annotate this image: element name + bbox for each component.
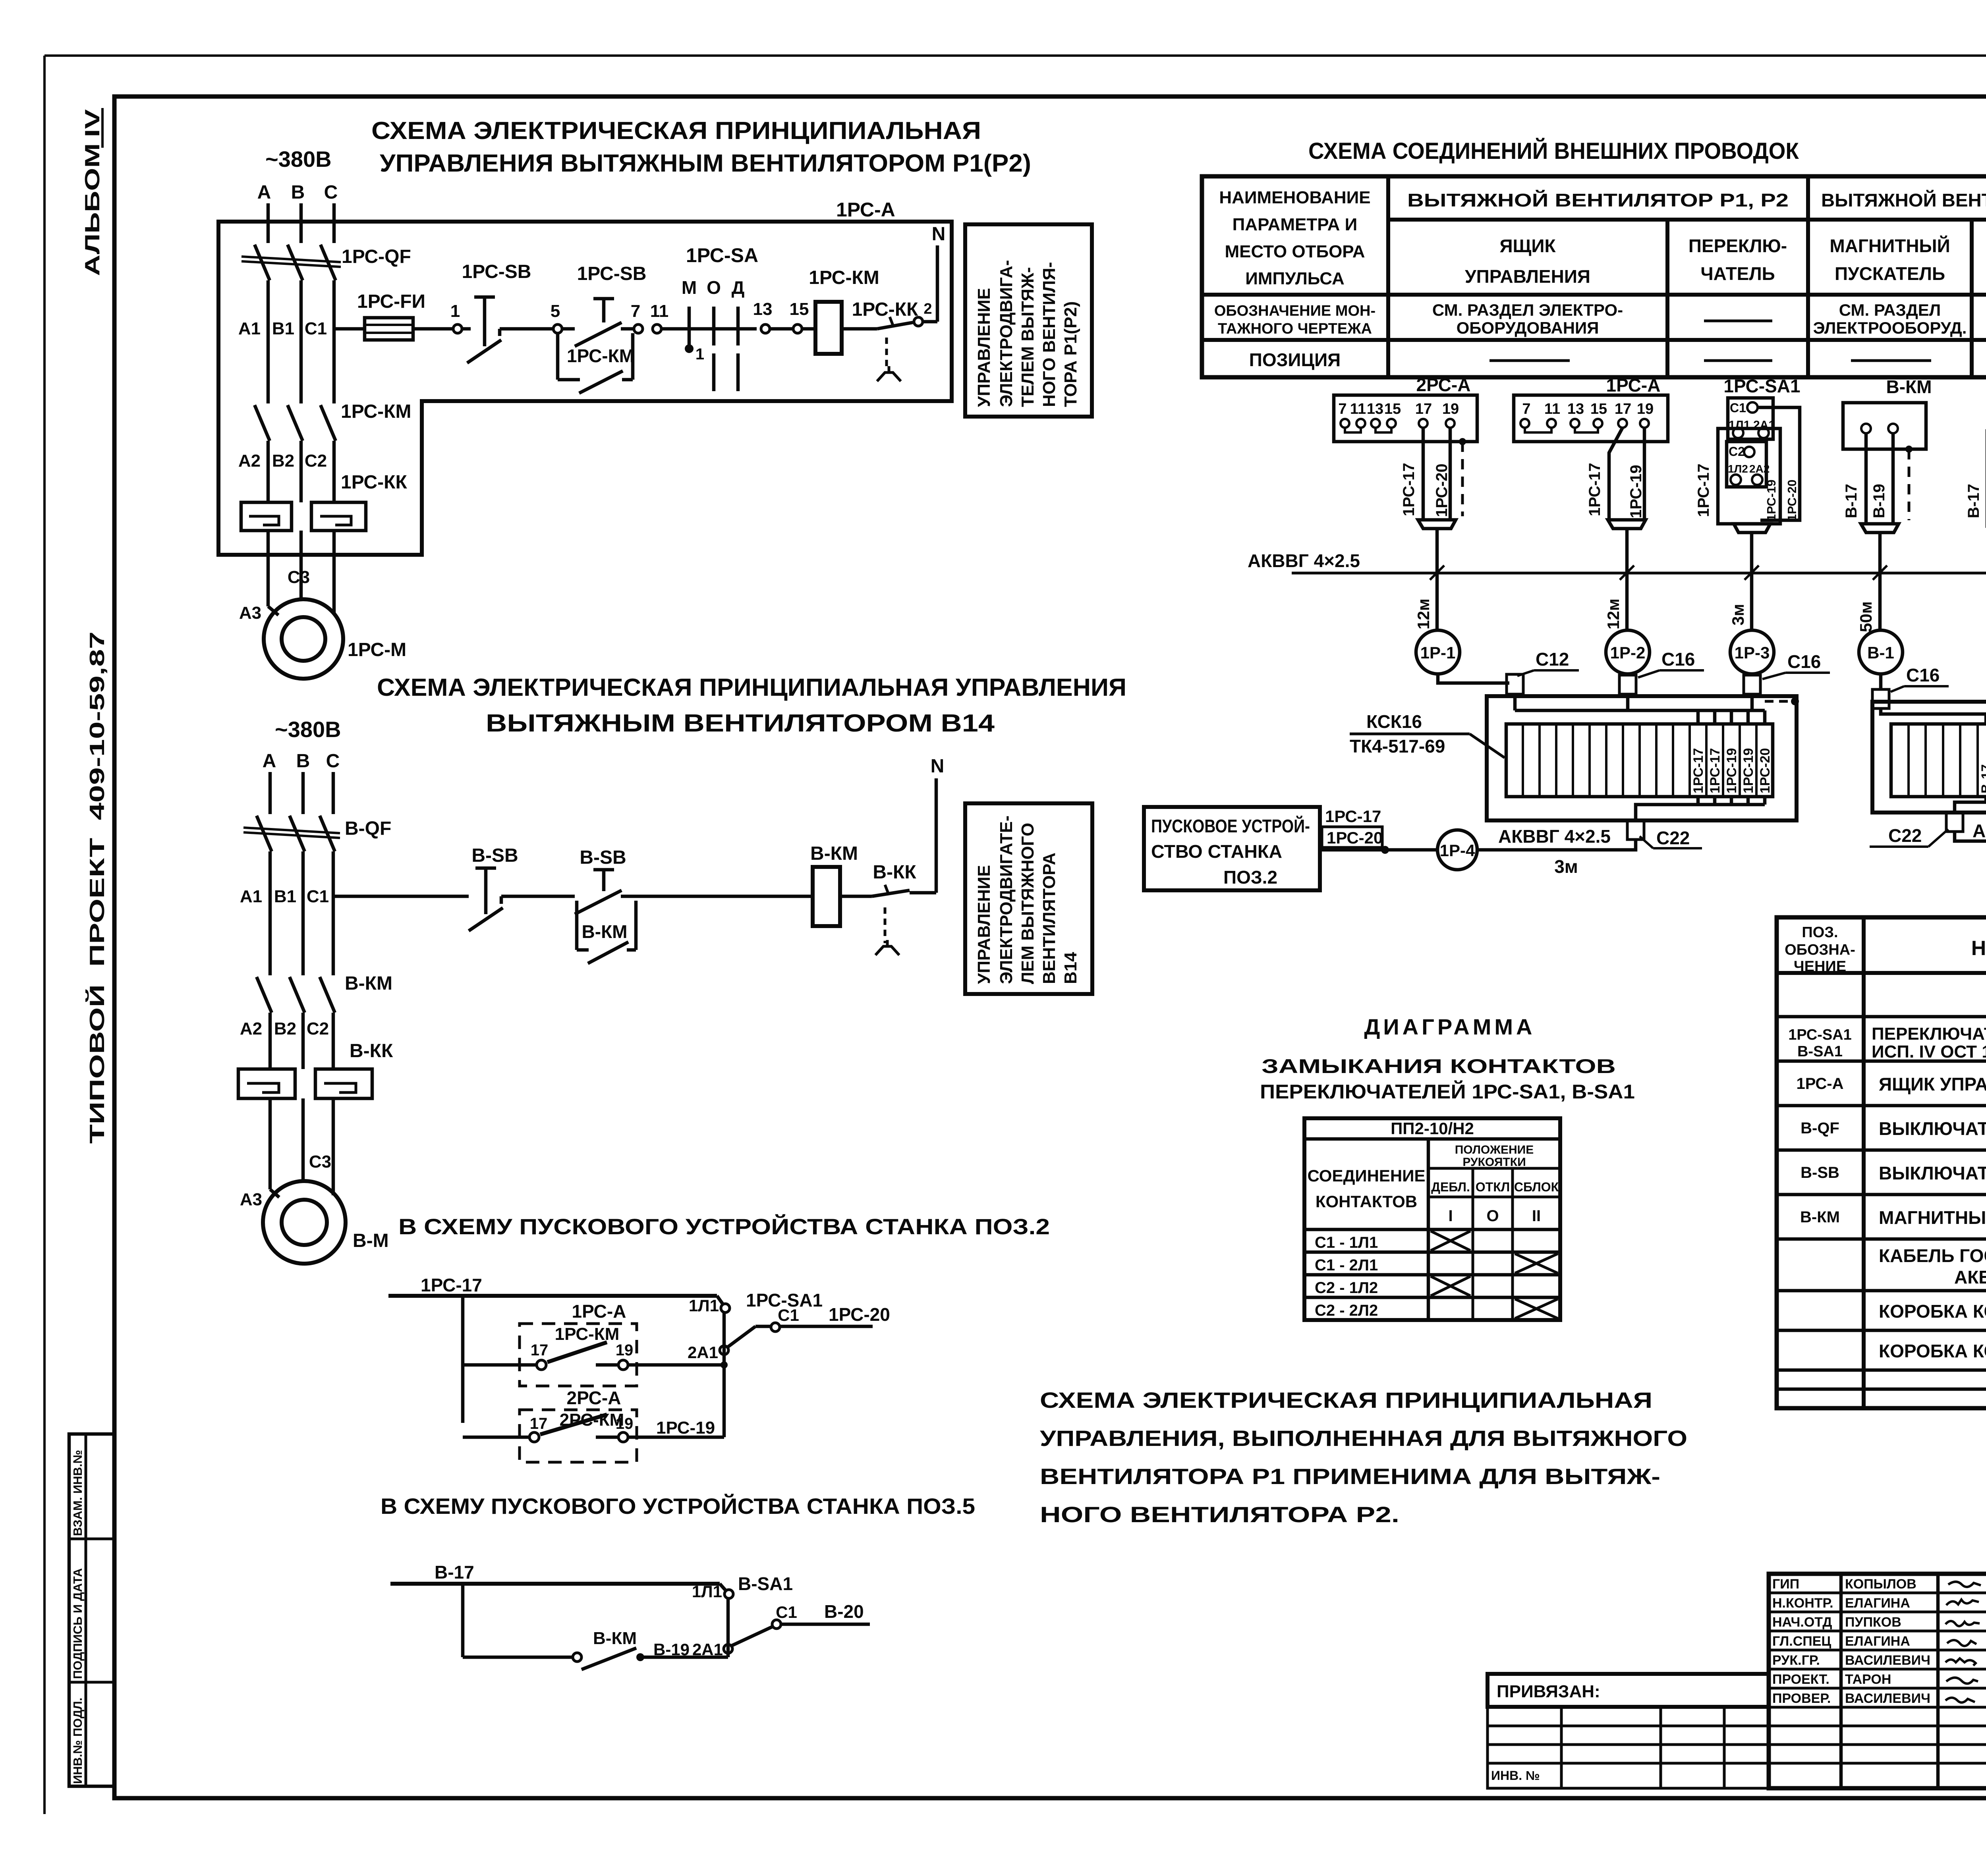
terminal strip KCK8 — [1891, 724, 1986, 797]
coil 1PC-KM — [815, 302, 842, 354]
wire to B-20 — [781, 1623, 870, 1626]
svg-text:ПОЗ.2: ПОЗ.2 — [1223, 867, 1277, 888]
svg-text:С1: С1 — [1730, 401, 1746, 415]
svg-text:ИНВ.№ ПОДЛ.: ИНВ.№ ПОДЛ. — [71, 1698, 85, 1784]
node 1L1 — [721, 1304, 730, 1312]
svg-text:II: II — [1532, 1207, 1541, 1225]
phase wires to motor — [269, 1098, 272, 1189]
terminal strip KCK16 — [1506, 724, 1773, 797]
svg-text:С2: С2 — [305, 451, 327, 471]
internal link wire KCK16 — [1515, 709, 1765, 712]
note box circuit 1 — [965, 224, 1092, 417]
svg-text:В-КМ: В-КМ — [1886, 376, 1932, 397]
svg-text:ГЛ.СПЕЦ: ГЛ.СПЕЦ — [1772, 1634, 1831, 1649]
circle B-1 — [1859, 630, 1903, 674]
svg-text:50м: 50м — [1857, 601, 1875, 632]
svg-text:А: А — [263, 751, 276, 772]
svg-text:1Р-2: 1Р-2 — [1610, 643, 1646, 662]
svg-text:В-КМ: В-КМ — [1800, 1208, 1840, 1226]
svg-text:15: 15 — [790, 299, 809, 319]
diagram table frame — [1304, 1118, 1560, 1320]
svg-text:19: 19 — [616, 1341, 634, 1359]
contact 2PC-KM in pos2 — [463, 1436, 529, 1439]
svg-text:А2: А2 — [240, 1019, 262, 1038]
wire to coil — [802, 327, 815, 331]
jumper links 2PC-A terminals — [1345, 428, 1361, 432]
svg-text:ТЕЛЕМ ВЫТЯЖ-: ТЕЛЕМ ВЫТЯЖ- — [1018, 267, 1037, 407]
svg-text:В СХЕМУ ПУСКОВОГО УСТРОЙСТВА: В СХЕМУ ПУСКОВОГО УСТРОЙСТВА СТАНКА ПОЗ.… — [381, 1494, 975, 1519]
C16 connector b — [1744, 675, 1760, 694]
wire node2 to N — [923, 320, 937, 324]
svg-text:А3: А3 — [240, 1190, 262, 1209]
margin stamp boxes bottom-left — [69, 1434, 114, 1786]
svg-text:В: В — [296, 751, 310, 772]
svg-text:1РС-А: 1РС-А — [572, 1301, 626, 1322]
svg-text:В-1: В-1 — [1867, 643, 1894, 662]
svg-text:М: М — [682, 277, 697, 298]
privyazan box — [1488, 1674, 1769, 1707]
svg-text:ЧАТЕЛЬ: ЧАТЕЛЬ — [1700, 263, 1775, 284]
svg-text:В-19: В-19 — [1870, 484, 1888, 518]
breaker B-QF blades — [257, 816, 272, 851]
svg-text:1РС-17: 1РС-17 — [421, 1275, 482, 1295]
control row wire from C1 — [334, 327, 365, 331]
svg-text:ВЗАМ. ИНВ.№: ВЗАМ. ИНВ.№ — [71, 1450, 85, 1536]
wire 1PC-17 — [388, 1294, 717, 1298]
svg-text:КОРОБКА КСК-8 ТУ36. 17: КОРОБКА КСК-8 ТУ36. 1753-75 — [1879, 1301, 1986, 1322]
jumper links 1PC-A terminals — [1525, 428, 1551, 432]
svg-text:~380В: ~380В — [265, 147, 332, 172]
svg-text:ПЕРЕКЛЮЧАТЕЛЕЙ 1РС-SА1, В-SА1: ПЕРЕКЛЮЧАТЕЛЕЙ 1РС-SА1, В-SА1 — [1260, 1080, 1635, 1103]
svg-text:А1: А1 — [238, 319, 261, 338]
svg-text:С: С — [324, 182, 338, 203]
svg-text:17: 17 — [530, 1415, 548, 1432]
svg-text:ПУСКОВОЕ УСТРОЙ-: ПУСКОВОЕ УСТРОЙ- — [1151, 816, 1310, 836]
svg-text:ПОЛОЖЕНИЕ: ПОЛОЖЕНИЕ — [1455, 1143, 1534, 1156]
svg-text:2РС-КМ: 2РС-КМ — [560, 1410, 624, 1430]
svg-text:СБЛОК: СБЛОК — [1514, 1180, 1559, 1194]
svg-text:В-М: В-М — [353, 1230, 389, 1251]
N wire — [936, 245, 939, 322]
handwritten signatures — [1948, 1582, 1981, 1587]
svg-text:1РС-19: 1РС-19 — [1724, 748, 1739, 793]
aux contact B-KM holding branch — [575, 901, 579, 950]
svg-text:ДЕБЛ.: ДЕБЛ. — [1431, 1180, 1470, 1194]
svg-text:1РС-20: 1РС-20 — [829, 1304, 890, 1325]
QF crossbar — [243, 828, 340, 833]
svg-text:12м: 12м — [1604, 598, 1623, 629]
svg-text:В2: В2 — [274, 1019, 296, 1038]
svg-text:С2: С2 — [1729, 444, 1745, 459]
svg-text:13: 13 — [1567, 401, 1584, 417]
svg-text:НАИМЕНОВАНИЕ: НАИМЕНОВАНИЕ — [1971, 937, 1986, 960]
svg-text:А3: А3 — [239, 603, 261, 623]
svg-text:ЛЕМ ВЫТЯЖНОГО: ЛЕМ ВЫТЯЖНОГО — [1018, 823, 1037, 984]
svg-text:1Р-1: 1Р-1 — [1420, 643, 1456, 662]
svg-text:5: 5 — [551, 301, 560, 321]
svg-text:СХЕМА ЭЛЕКТРИЧЕСКАЯ ПРИНЦИПИ: СХЕМА ЭЛЕКТРИЧЕСКАЯ ПРИНЦИПИАЛЬНАЯ — [371, 117, 981, 145]
svg-text:N: N — [931, 756, 945, 777]
svg-text:ОТКЛ: ОТКЛ — [1476, 1180, 1510, 1194]
svg-text:КОПЫЛОВ: КОПЫЛОВ — [1845, 1577, 1916, 1592]
svg-text:НАЧ.ОТД: НАЧ.ОТД — [1772, 1615, 1832, 1630]
svg-text:СТВО СТАНКА: СТВО СТАНКА — [1151, 841, 1282, 862]
node 2A1 pos5 — [724, 1644, 732, 1653]
C22 connector left — [1627, 820, 1644, 840]
svg-text:1РС-20: 1РС-20 — [1758, 748, 1773, 793]
svg-text:КАБЕЛЬ ГОСТ 1508-78*Е: КАБЕЛЬ ГОСТ 1508-78*Е — [1879, 1245, 1986, 1266]
phase wires to motor — [267, 531, 270, 606]
svg-text:В-17: В-17 — [1843, 484, 1860, 518]
svg-text:13: 13 — [1367, 401, 1383, 417]
svg-text:ОБОРУДОВАНИЯ: ОБОРУДОВАНИЯ — [1457, 318, 1599, 337]
wire to 1PC-20 — [780, 1325, 873, 1328]
svg-text:СМ. РАЗДЕЛ ЭЛЕКТРО-: СМ. РАЗДЕЛ ЭЛЕКТРО- — [1432, 301, 1623, 319]
svg-text:СМ. РАЗДЕЛ: СМ. РАЗДЕЛ — [1839, 301, 1941, 319]
svg-text:ЕЛАГИНА: ЕЛАГИНА — [1845, 1634, 1910, 1649]
svg-text:I: I — [1448, 1207, 1453, 1225]
svg-text:ТК4-517-69: ТК4-517-69 — [1350, 736, 1445, 757]
svg-text:12м: 12м — [1414, 598, 1433, 629]
svg-text:ОБОЗНА-: ОБОЗНА- — [1785, 942, 1855, 958]
svg-text:С1: С1 — [305, 319, 327, 338]
svg-text:ОБОЗНАЧЕНИЕ МОН-: ОБОЗНАЧЕНИЕ МОН- — [1214, 303, 1376, 319]
svg-text:11: 11 — [1350, 401, 1366, 417]
node 7 — [634, 324, 643, 333]
wire fuse to node 1 — [413, 327, 453, 331]
svg-text:СХЕМА ЭЛЕКТРИЧЕСКАЯ ПРИНЦИПИ: СХЕМА ЭЛЕКТРИЧЕСКАЯ ПРИНЦИПИАЛЬНАЯ — [1040, 1388, 1652, 1413]
svg-text:В1: В1 — [274, 887, 296, 906]
svg-text:17: 17 — [531, 1341, 549, 1359]
svg-text:7: 7 — [631, 301, 640, 321]
svg-text:ПРОВЕР.: ПРОВЕР. — [1772, 1691, 1831, 1706]
svg-text:ПРИВЯЗАН:: ПРИВЯЗАН: — [1497, 1682, 1600, 1701]
svg-text:В-КМ: В-КМ — [582, 921, 628, 942]
svg-text:3м: 3м — [1729, 604, 1747, 625]
node 2A1 — [720, 1346, 728, 1355]
aux contact 1PC-KM holding branch — [556, 333, 560, 380]
svg-text:ТАРОН: ТАРОН — [1845, 1672, 1891, 1687]
svg-text:1РС-КМ: 1РС-КМ — [809, 267, 879, 288]
blade 2A1 to C1 pos5 — [732, 1627, 773, 1646]
svg-text:13: 13 — [753, 299, 773, 319]
svg-text:НАИМЕНОВАНИЕ: НАИМЕНОВАНИЕ — [1219, 188, 1370, 207]
main outline — [1769, 1574, 1986, 1788]
wire 1P-1 to C12 — [1438, 674, 1509, 683]
svg-text:ТАЖНОГО ЧЕРТЕЖА: ТАЖНОГО ЧЕРТЕЖА — [1218, 320, 1372, 337]
svg-text:В-17: В-17 — [435, 1562, 474, 1583]
KK manual reset dashed — [885, 338, 888, 369]
vertical node link — [723, 1312, 726, 1437]
svg-text:7: 7 — [1338, 401, 1347, 417]
svg-text:С1: С1 — [778, 1306, 799, 1324]
svg-text:В-19: В-19 — [653, 1640, 690, 1659]
reserve stub dot KCK16 — [1765, 700, 1789, 703]
svg-text:1РС-SА1: 1РС-SА1 — [1788, 1027, 1852, 1043]
phase wires lower — [267, 441, 270, 502]
circle 1P-2 — [1606, 630, 1650, 674]
circle 1P-1 — [1416, 630, 1460, 674]
svg-text:РУКОЯТКИ: РУКОЯТКИ — [1462, 1156, 1526, 1169]
vertical node link pos5 — [726, 1598, 730, 1657]
svg-text:1РС-КМ: 1РС-КМ — [555, 1324, 620, 1344]
wire 13-15 — [770, 327, 793, 331]
svg-text:1РС-19: 1РС-19 — [1764, 480, 1778, 521]
svg-text:АКВВГ 4×2.5: АКВВГ 4×2.5 — [1498, 826, 1611, 847]
wire coil to KK contact — [842, 327, 877, 331]
wire B-17 — [390, 1582, 720, 1586]
svg-text:УПРАВЛЕНИЯ, ВЫПОЛНЕННАЯ ДЛЯ: УПРАВЛЕНИЯ, ВЫПОЛНЕННАЯ ДЛЯ ВЫТЯЖНОГО — [1040, 1426, 1687, 1451]
svg-text:В-SА1: В-SА1 — [738, 1573, 793, 1594]
svg-text:ИСП. IV ОСТ 16.0.526-001-77: ИСП. IV ОСТ 16.0.526-001-77 — [1872, 1042, 1986, 1062]
svg-text:В-QF: В-QF — [1801, 1119, 1839, 1137]
svg-text:1РС-SВ: 1РС-SВ — [577, 263, 647, 284]
svg-text:КОНТАКТОВ: КОНТАКТОВ — [1316, 1192, 1417, 1211]
svg-text:2А1: 2А1 — [692, 1640, 723, 1659]
svg-text:1РС-SВ: 1РС-SВ — [462, 261, 531, 282]
fuse 1PC-FI — [365, 318, 413, 340]
breaker 1PC-QF blades — [255, 245, 270, 280]
svg-text:С16: С16 — [1661, 649, 1695, 670]
svg-text:1РС-КМ: 1РС-КМ — [567, 345, 634, 366]
cable clamp 1PC-SA1 — [1734, 524, 1770, 533]
svg-text:ЭЛЕКТРОДВИГА-: ЭЛЕКТРОДВИГА- — [997, 260, 1016, 407]
internal link wires KCK8 — [1881, 708, 1986, 724]
svg-text:ПУПКОВ: ПУПКОВ — [1845, 1615, 1901, 1630]
svg-text:1: 1 — [450, 301, 460, 321]
svg-text:УПРАВЛЕНИЕ: УПРАВЛЕНИЕ — [974, 288, 994, 407]
KCK8 bottom collector — [1984, 797, 1986, 802]
svg-text:МАГНИТНЫЙ ПУСКАТЕЛЬ: МАГНИТНЫЙ ПУСКАТЕЛЬ — [1879, 1207, 1986, 1228]
svg-text:ВЫКЛЮЧАТЕЛЬ: ВЫКЛЮЧАТЕЛЬ — [1879, 1118, 1986, 1139]
svg-text:1РС-19: 1РС-19 — [1741, 748, 1756, 793]
svg-text:В-QF: В-QF — [345, 818, 391, 839]
svg-text:ВАСИЛЕВИЧ: ВАСИЛЕВИЧ — [1845, 1653, 1930, 1668]
contactor B-KM main blades — [257, 977, 272, 1013]
svg-text:15: 15 — [1384, 401, 1401, 417]
svg-text:В-SВ: В-SВ — [580, 847, 626, 868]
wire C22 to 1P-4 — [1476, 840, 1636, 850]
svg-text:~380В: ~380В — [275, 717, 341, 742]
svg-text:В-17: В-17 — [1965, 484, 1982, 518]
svg-text:2РС-А: 2РС-А — [567, 1388, 621, 1408]
wires from 1PC-A — [1609, 428, 1623, 520]
svg-text:С22: С22 — [1656, 828, 1690, 848]
svg-text:В-КК: В-КК — [873, 862, 916, 883]
node 5 — [553, 324, 562, 333]
dashed box 1PC-A — [520, 1324, 637, 1386]
table frame — [1202, 176, 1986, 377]
dashed box 2PC-A — [520, 1410, 637, 1462]
svg-text:ВЫТЯЖНОЙ ВЕНТИЛЯТОР В14: ВЫТЯЖНОЙ ВЕНТИЛЯТОР В14 — [1821, 190, 1986, 210]
svg-text:АКВВГ 4×2.5: АКВВГ 4×2.5 — [1954, 1267, 1986, 1287]
svg-text:1РС-QF: 1РС-QF — [342, 246, 411, 267]
svg-text:В СХЕМУ ПУСКОВОГО УСТРОЙСТВ: В СХЕМУ ПУСКОВОГО УСТРОЙСТВА СТАНКА ПОЗ.… — [398, 1214, 1050, 1239]
KCK16 box — [1487, 696, 1797, 820]
svg-text:ИНВ. №: ИНВ. № — [1491, 1768, 1540, 1783]
node C1 — [771, 1323, 780, 1332]
KCK16 strip dividers continued — [1739, 724, 1741, 797]
svg-text:3м: 3м — [1554, 856, 1578, 877]
svg-text:1Р-4: 1Р-4 — [1440, 841, 1475, 860]
svg-text:В-КМ: В-КМ — [810, 843, 858, 864]
phase wires top — [269, 772, 272, 814]
svg-text:ПОЗ.: ПОЗ. — [1802, 924, 1838, 941]
svg-text:ЧЕНИЕ: ЧЕНИЕ — [1794, 958, 1846, 975]
svg-text:ЯЩИК УПРАВЛЕНИЯ: ЯЩИК УПРАВЛЕНИЯ — [1879, 1074, 1986, 1094]
contact B-KM in pos5 — [463, 1656, 573, 1659]
coil B-KM — [813, 867, 840, 926]
svg-text:1РС-19: 1РС-19 — [656, 1418, 715, 1438]
svg-text:ВЫТЯЖНЫМ ВЕНТИЛЯТОРОМ В14: ВЫТЯЖНЫМ ВЕНТИЛЯТОРОМ В14 — [486, 710, 995, 737]
wire 1P-4 to pos2 box — [1320, 848, 1437, 852]
node 13 — [761, 324, 770, 333]
svg-text:1РС-SА: 1РС-SА — [686, 244, 758, 266]
svg-text:1РС-А: 1РС-А — [1796, 1075, 1843, 1092]
svg-text:ПОДПИСЬ И ДАТА: ПОДПИСЬ И ДАТА — [71, 1568, 85, 1679]
svg-text:С22: С22 — [1888, 825, 1922, 846]
phase wires lower — [269, 1013, 272, 1069]
svg-text:ПАРАМЕТРА И: ПАРАМЕТРА И — [1233, 215, 1358, 234]
outer border top — [44, 54, 1986, 57]
svg-text:N: N — [932, 224, 946, 245]
svg-text:ЕЛАГИНА: ЕЛАГИНА — [1845, 1596, 1910, 1611]
circle 1P-4 — [1437, 830, 1477, 870]
svg-text:В-КМ: В-КМ — [345, 973, 392, 994]
branch junction vertical — [461, 1296, 465, 1423]
svg-text:1РС-19: 1РС-19 — [1627, 465, 1645, 518]
note box circuit 2 — [965, 803, 1092, 994]
wire to switch SA — [661, 327, 757, 331]
contactor 1PC-KM main blades — [255, 405, 270, 441]
svg-text:В-17: В-17 — [1979, 764, 1986, 793]
C16 connector c — [1872, 689, 1889, 708]
svg-text:УПРАВЛЕНИЯ ВЫТЯЖНЫМ ВЕНТИЛЯТ: УПРАВЛЕНИЯ ВЫТЯЖНЫМ ВЕНТИЛЯТОРОМ Р1(Р2) — [380, 150, 1031, 177]
svg-text:МЕСТО ОТБОРА: МЕСТО ОТБОРА — [1225, 242, 1365, 261]
svg-text:МАГНИТНЫЙ: МАГНИТНЫЙ — [1830, 235, 1950, 256]
svg-text:В14: В14 — [1061, 952, 1080, 984]
svg-text:ПЕРЕКЛЮЧАТЕЛЬ ПП2-10/Н2 У356: ПЕРЕКЛЮЧАТЕЛЬ ПП2-10/Н2 У356 — [1872, 1024, 1986, 1044]
svg-text:С12: С12 — [1536, 649, 1569, 670]
node 2 — [914, 317, 923, 326]
circle 1P-3 — [1730, 630, 1774, 674]
svg-text:АКВВГ 4×2.5: АКВВГ 4×2.5 — [1248, 550, 1360, 571]
svg-text:В-SА1: В-SА1 — [1797, 1043, 1843, 1060]
svg-text:1РС-17: 1РС-17 — [1708, 748, 1723, 793]
wire B-1 to C16 — [1879, 674, 1883, 689]
svg-text:ВЫКЛЮЧАТЕЛЬ: ВЫКЛЮЧАТЕЛЬ — [1879, 1163, 1986, 1183]
thermal relay 1PC-KK element A — [241, 502, 292, 531]
svg-text:ВЕНТИЛЯТОРА Р1 ПРИМЕНИМА ДЛЯ: ВЕНТИЛЯТОРА Р1 ПРИМЕНИМА ДЛЯ ВЫТЯЖ- — [1040, 1464, 1660, 1489]
svg-text:В-КК: В-КК — [350, 1040, 393, 1062]
contact 1PC-KM in pos2 — [463, 1363, 537, 1367]
svg-text:1РС-20: 1РС-20 — [1433, 463, 1451, 517]
svg-text:ЯЩИК: ЯЩИК — [1499, 235, 1556, 256]
control box 1PC-A outline — [218, 222, 952, 555]
node 1L1 pos5 — [724, 1590, 733, 1598]
svg-text:1РС-SА1: 1РС-SА1 — [1723, 376, 1800, 396]
thermal relay B-KK element C — [315, 1069, 372, 1098]
svg-text:15: 15 — [1590, 401, 1607, 417]
svg-text:С2: С2 — [307, 1019, 329, 1038]
diagram table row line I O II — [1428, 1196, 1560, 1199]
svg-text:ИМПУЛЬСА: ИМПУЛЬСА — [1245, 269, 1344, 288]
svg-text:1РС-17: 1РС-17 — [1586, 463, 1603, 516]
svg-text:С2 - 2Л2: С2 - 2Л2 — [1315, 1302, 1378, 1319]
svg-text:1РС-А: 1РС-А — [1606, 375, 1661, 396]
svg-text:1Л2: 1Л2 — [1728, 463, 1748, 475]
svg-text:ПЕРЕКЛЮ-: ПЕРЕКЛЮ- — [1688, 235, 1787, 256]
KCK8 box — [1872, 702, 1986, 813]
svg-text:С1 - 1Л1: С1 - 1Л1 — [1315, 1234, 1378, 1251]
svg-text:1РС-20: 1РС-20 — [1785, 480, 1799, 521]
branch junction vertical pos5 — [461, 1584, 465, 1657]
svg-text:ПП2-10/Н2: ПП2-10/Н2 — [1391, 1119, 1474, 1138]
svg-text:ПРОЕКТ.: ПРОЕКТ. — [1772, 1672, 1830, 1687]
node C1 pos5 — [772, 1620, 781, 1629]
svg-text:РУК.ГР.: РУК.ГР. — [1772, 1653, 1820, 1668]
svg-text:С3: С3 — [309, 1152, 331, 1172]
N wire — [935, 778, 938, 893]
svg-text:ВЫТЯЖНОЙ ВЕНТИЛЯТОР Р1, Р2: ВЫТЯЖНОЙ ВЕНТИЛЯТОР Р1, Р2 — [1407, 190, 1789, 210]
QF crossbar — [241, 257, 341, 262]
svg-text:ПОЗИЦИЯ: ПОЗИЦИЯ — [1249, 349, 1341, 370]
svg-text:ТИПОВОЙ ПРОЕКТ 409-10-59,87: ТИПОВОЙ ПРОЕКТ 409-10-59,87 — [85, 631, 109, 1144]
svg-text:11: 11 — [1544, 401, 1560, 417]
svg-text:17: 17 — [1415, 401, 1432, 417]
svg-text:АЛЬБОМ IV: АЛЬБОМ IV — [81, 109, 104, 276]
signature table rows — [1769, 1592, 1986, 1594]
svg-text:В-SВ: В-SВ — [471, 845, 518, 866]
svg-text:С16: С16 — [1787, 651, 1821, 672]
svg-text:С16: С16 — [1906, 665, 1940, 685]
grid below privyazan — [1488, 1707, 1769, 1788]
X marks — [1431, 1231, 1470, 1251]
svg-text:1РС-КК: 1РС-КК — [341, 472, 407, 493]
KK manual reset dashed — [884, 907, 887, 943]
svg-text:11: 11 — [650, 301, 669, 321]
svg-text:В1: В1 — [272, 319, 294, 338]
svg-text:НОГО ВЕНТИЛЯТОРА Р2.: НОГО ВЕНТИЛЯТОРА Р2. — [1040, 1502, 1399, 1527]
phase wires mid — [267, 280, 270, 403]
cable clamp 1PC-A — [1608, 520, 1646, 529]
cable bus AKVVG — [1292, 572, 1986, 575]
svg-text:ЗАМЫКАНИЯ КОНТАКТОВ: ЗАМЫКАНИЯ КОНТАКТОВ — [1262, 1055, 1616, 1077]
svg-text:2А1: 2А1 — [688, 1343, 718, 1362]
wires from 2PC-A — [1422, 428, 1425, 520]
svg-text:ВАСИЛЕВИЧ: ВАСИЛЕВИЧ — [1845, 1691, 1930, 1706]
svg-text:1Л1: 1Л1 — [689, 1296, 719, 1315]
svg-text:ГИП: ГИП — [1772, 1577, 1799, 1592]
svg-text:1Р-3: 1Р-3 — [1735, 643, 1770, 662]
svg-text:ПУСКАТЕЛЬ: ПУСКАТЕЛЬ — [1835, 263, 1945, 284]
svg-text:Н.КОНТР.: Н.КОНТР. — [1772, 1596, 1833, 1611]
svg-text:2РС-А: 2РС-А — [1416, 374, 1471, 395]
svg-text:В-SВ: В-SВ — [1801, 1164, 1839, 1181]
terminals 1L2 2A2 of 1PC-SA1 — [1731, 475, 1741, 485]
control row wire from C1 — [333, 895, 469, 898]
svg-text:7: 7 — [1522, 401, 1530, 417]
C1 wire right — [1758, 407, 1800, 520]
C12 connector — [1507, 674, 1523, 694]
parts table bottom empty row line — [1777, 1388, 1986, 1391]
svg-text:В: В — [291, 182, 305, 203]
svg-text:1РС-КК: 1РС-КК — [852, 299, 918, 320]
svg-text:НОГО ВЕНТИЛЯ-: НОГО ВЕНТИЛЯ- — [1039, 262, 1059, 407]
svg-text:С2 - 1Л2: С2 - 1Л2 — [1315, 1279, 1378, 1297]
svg-text:С1 - 2Л1: С1 - 2Л1 — [1315, 1256, 1378, 1274]
svg-text:1: 1 — [695, 345, 704, 363]
